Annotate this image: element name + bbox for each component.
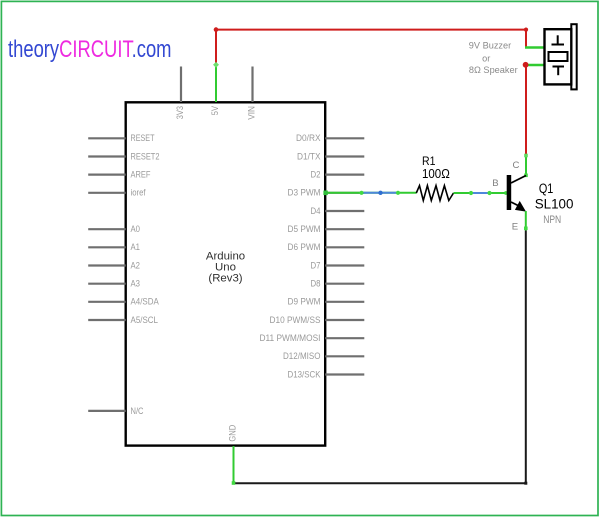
Arduino Uno module body	[126, 102, 326, 445]
svg-text:A1: A1	[131, 242, 141, 253]
svg-text:E: E	[512, 221, 518, 232]
svg-text:Q1: Q1	[539, 181, 554, 196]
wire 5V green stub	[213, 62, 219, 102]
pin RESET	[88, 133, 154, 144]
svg-text:D11 PWM/MOSI: D11 PWM/MOSI	[260, 333, 321, 344]
pin 5V	[210, 106, 221, 116]
svg-text:GND: GND	[227, 425, 238, 442]
label pin C	[513, 160, 520, 171]
svg-text:D2: D2	[311, 170, 321, 181]
svg-text:3V3: 3V3	[175, 106, 186, 119]
wire buzzer plus terminal green	[525, 46, 545, 48]
svg-text:D4: D4	[311, 206, 322, 217]
resistor R1	[416, 186, 453, 201]
label pin B	[492, 178, 498, 189]
pin A4/SDA	[88, 297, 159, 308]
svg-text:8Ω Speaker: 8Ω Speaker	[469, 65, 518, 75]
pin ioref	[88, 188, 146, 199]
svg-text:VIN: VIN	[247, 106, 258, 120]
svg-text:D5 PWM: D5 PWM	[288, 224, 321, 235]
svg-text:D1/TX: D1/TX	[297, 151, 321, 162]
pin A5/SCL	[88, 315, 158, 326]
label Q1 SL100 NPN	[535, 181, 574, 226]
logo theoryCIRCUIT.com	[8, 36, 171, 63]
svg-text:ioref: ioref	[131, 188, 146, 199]
wire collector stub green	[524, 154, 528, 177]
svg-text:R1: R1	[422, 154, 436, 168]
svg-text:NPN: NPN	[543, 214, 561, 226]
svg-text:100Ω: 100Ω	[422, 167, 450, 181]
pin RESET2	[88, 151, 159, 162]
wire buzzer minus to collector red	[525, 65, 527, 156]
pin A3	[88, 279, 140, 290]
label 9V Buzzer or 8R Speaker	[469, 40, 518, 75]
svg-text:D10 PWM/SS: D10 PWM/SS	[270, 315, 321, 326]
label R1 100ohm	[422, 154, 450, 181]
svg-text:D6 PWM: D6 PWM	[288, 242, 321, 253]
svg-text:D0/RX: D0/RX	[296, 133, 321, 144]
svg-text:theoryCIRCUIT.com: theoryCIRCUIT.com	[8, 36, 171, 63]
svg-text:9V Buzzer: 9V Buzzer	[469, 40, 511, 50]
transistor Q1	[507, 175, 526, 212]
wire emitter stub green	[524, 211, 528, 231]
pin D9 PWM	[288, 297, 365, 308]
svg-text:D8: D8	[311, 279, 321, 290]
svg-text:A0: A0	[131, 224, 141, 235]
wire D3 to R1	[323, 191, 416, 196]
pin D6 PWM	[288, 242, 365, 253]
pin A2	[88, 260, 140, 271]
svg-text:A4/SDA: A4/SDA	[131, 297, 160, 308]
wire buzzer minus terminal green	[525, 64, 545, 66]
svg-text:or: or	[482, 53, 490, 63]
pin D3 PWM	[288, 188, 365, 199]
wire GND green	[232, 446, 236, 485]
wire emitter to GND black	[234, 231, 528, 485]
pin D2	[311, 170, 365, 181]
pin D13/SCK	[288, 369, 365, 380]
pin D4	[311, 206, 365, 217]
buzzer LS1	[545, 24, 577, 89]
wire R1 to base	[454, 191, 509, 195]
svg-text:D9 PWM: D9 PWM	[288, 297, 321, 308]
svg-text:(Rev3): (Rev3)	[208, 273, 242, 285]
pin GND	[227, 425, 238, 442]
pin D0/RX	[296, 133, 364, 144]
svg-text:A2: A2	[131, 260, 141, 271]
svg-text:AREF: AREF	[131, 170, 151, 181]
pin D1/TX	[297, 151, 364, 162]
wire 5V red	[214, 27, 528, 64]
svg-text:D7: D7	[311, 260, 321, 271]
pin D5 PWM	[288, 224, 365, 235]
svg-text:D3 PWM: D3 PWM	[288, 188, 321, 199]
svg-text:D12/MISO: D12/MISO	[283, 351, 321, 362]
pin D11 PWM/MOSI	[260, 333, 365, 344]
pin D10 PWM/SS	[270, 315, 365, 326]
svg-text:A5/SCL: A5/SCL	[131, 315, 159, 326]
svg-text:SL100: SL100	[535, 197, 574, 212]
pin AREF	[88, 170, 150, 181]
svg-text:C: C	[513, 160, 520, 171]
svg-text:B: B	[492, 178, 498, 189]
svg-text:N/C: N/C	[131, 406, 144, 417]
svg-text:D13/SCK: D13/SCK	[288, 369, 321, 380]
pin 3V3	[175, 67, 186, 120]
pin A0	[88, 224, 140, 235]
pin A1	[88, 242, 140, 253]
svg-text:RESET2: RESET2	[131, 151, 160, 162]
junction buzzer minus node	[523, 62, 529, 68]
svg-text:A3: A3	[131, 279, 141, 290]
svg-text:RESET: RESET	[131, 133, 155, 144]
pin D12/MISO	[283, 351, 364, 362]
pin VIN	[247, 67, 258, 120]
pin D8	[311, 279, 365, 290]
pin D7	[311, 260, 365, 271]
pin N/C	[88, 406, 143, 417]
svg-text:5V: 5V	[210, 106, 221, 116]
label pin E	[512, 221, 518, 232]
